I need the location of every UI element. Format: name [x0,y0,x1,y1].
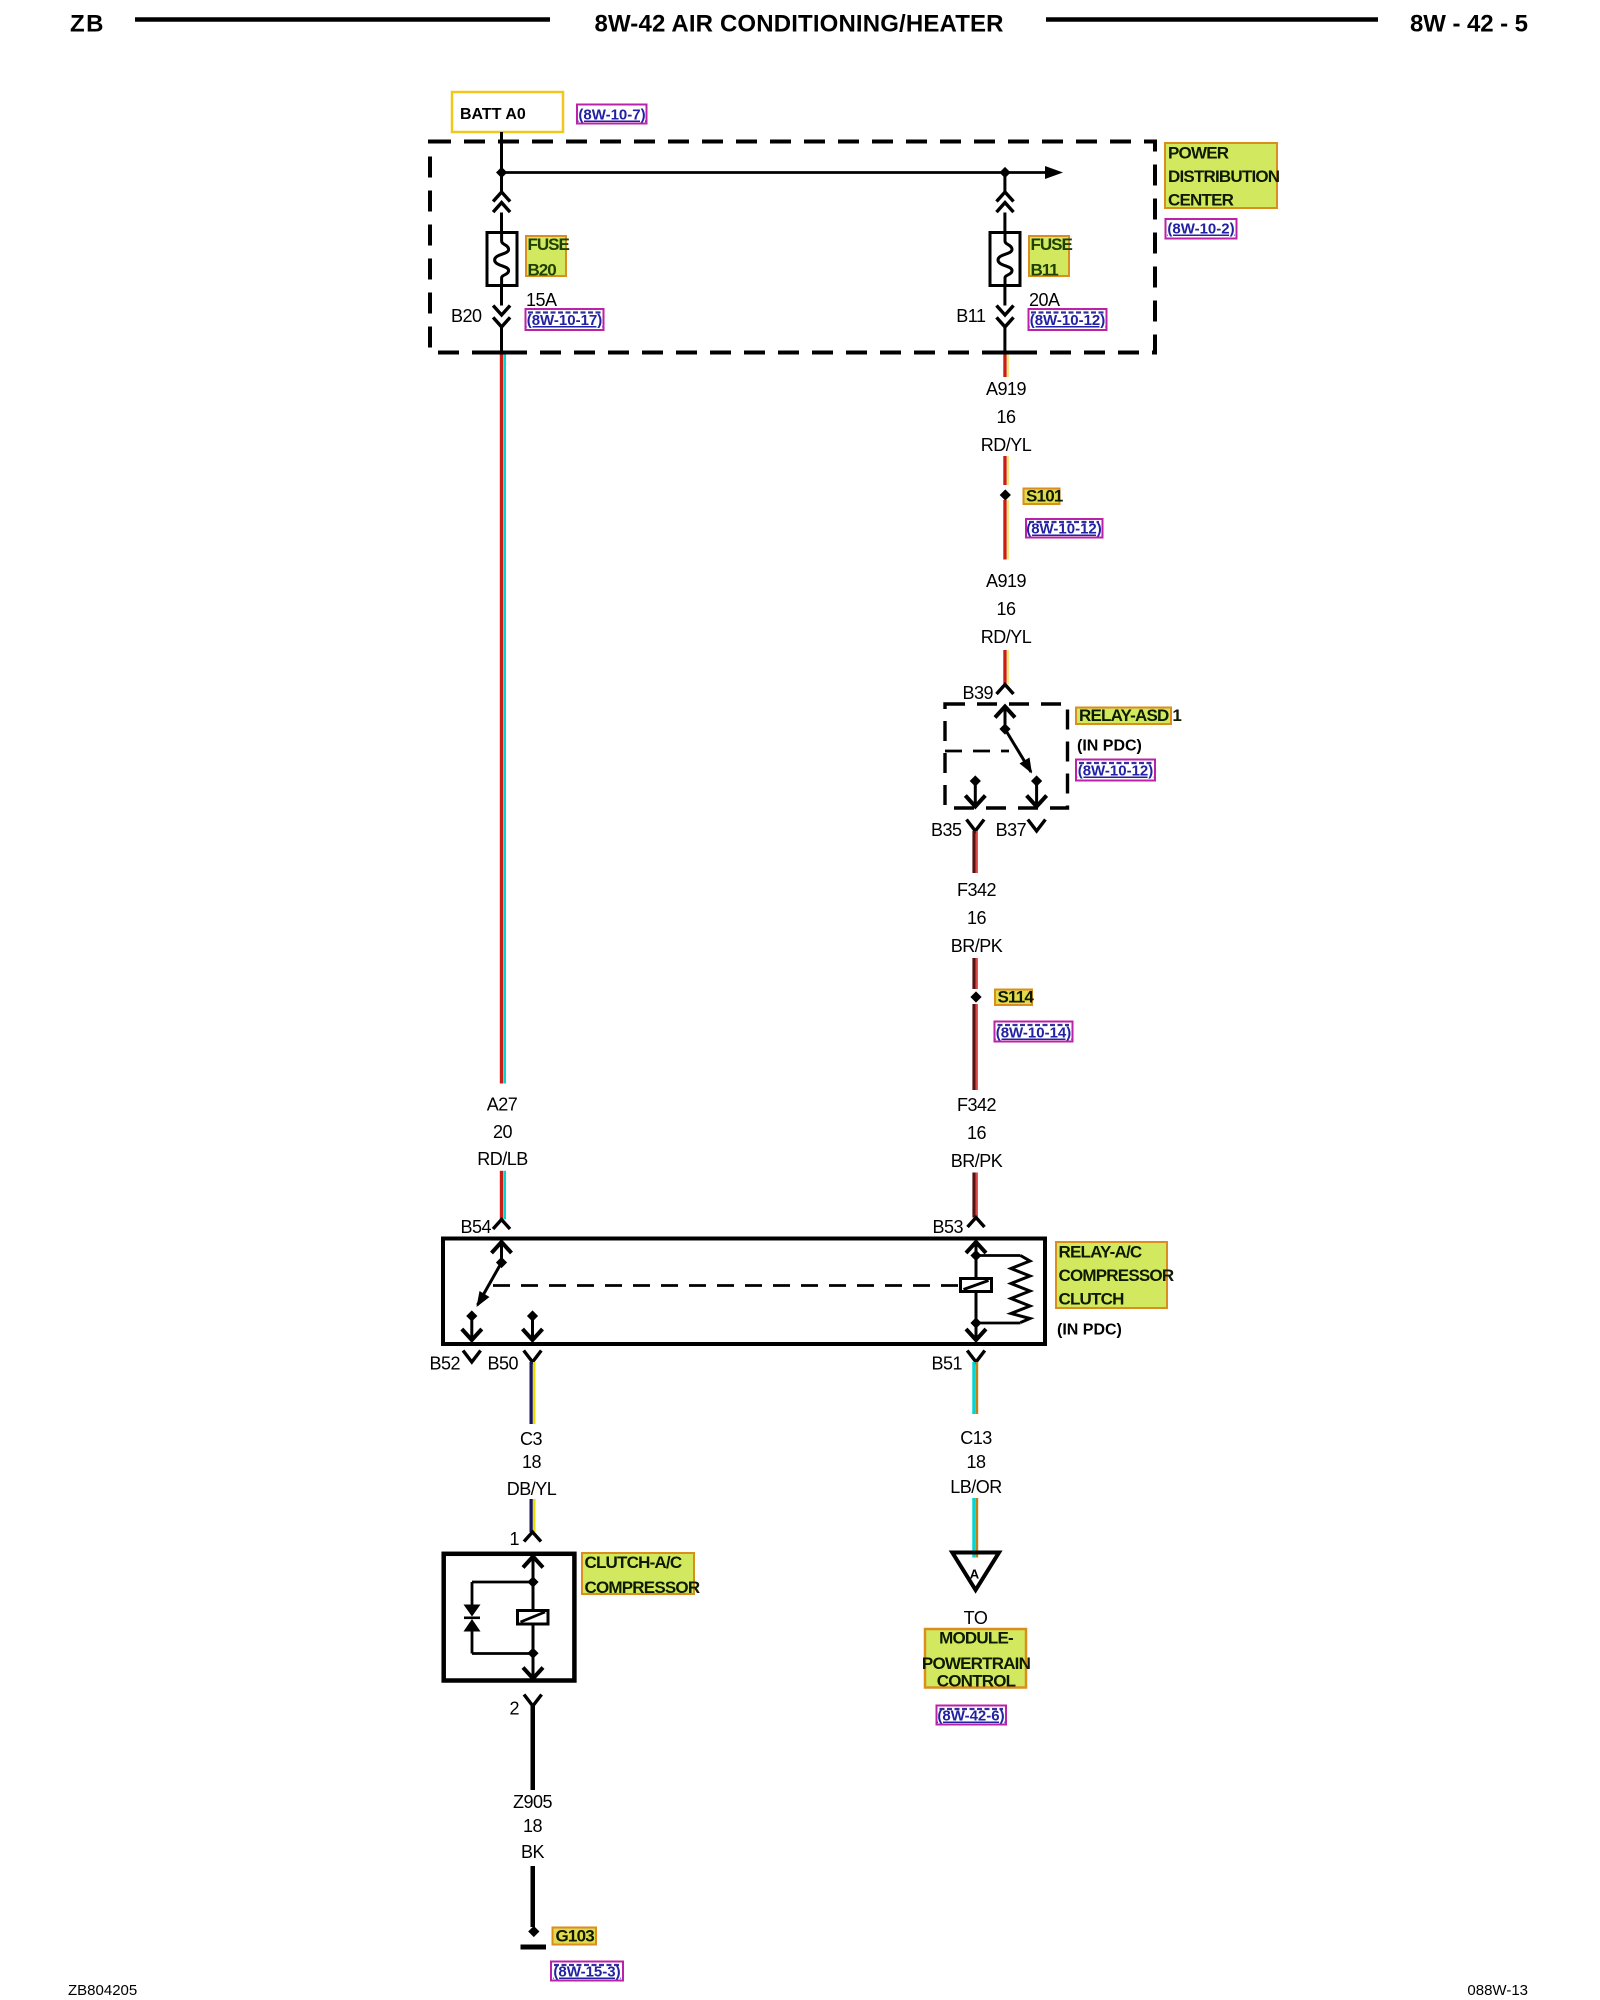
svg-text:BK: BK [521,1842,545,1862]
svg-text:RELAY-ASD 1: RELAY-ASD 1 [1079,706,1181,725]
svg-text:15A: 15A [526,290,557,310]
svg-text:16: 16 [967,1123,987,1143]
svg-text:DISTRIBUTION: DISTRIBUTION [1168,167,1280,186]
svg-text:COMPRESSOR: COMPRESSOR [1059,1266,1174,1285]
svg-text:A919: A919 [986,571,1027,591]
svg-text:16: 16 [996,599,1016,619]
svg-text:RD/LB: RD/LB [477,1149,528,1169]
svg-text:B20: B20 [528,261,557,280]
svg-text:A27: A27 [487,1095,518,1115]
svg-text:CENTER: CENTER [1168,191,1234,210]
svg-text:LB/OR: LB/OR [950,1477,1002,1497]
svg-text:B54: B54 [460,1217,491,1237]
svg-text:CLUTCH-A/C: CLUTCH-A/C [585,1553,682,1572]
svg-text:G103: G103 [556,1927,595,1946]
svg-text:16: 16 [967,908,987,928]
svg-text:COMPRESSOR: COMPRESSOR [585,1578,700,1597]
svg-text:(8W-10-12): (8W-10-12) [1026,521,1102,538]
svg-text:S101: S101 [1026,487,1063,506]
svg-text:B37: B37 [996,820,1027,840]
svg-text:A: A [970,1567,980,1582]
svg-text:16: 16 [996,407,1016,427]
svg-text:B50: B50 [487,1354,518,1374]
svg-text:BR/PK: BR/PK [951,1151,1003,1171]
svg-text:(8W-42-6): (8W-42-6) [937,1708,1004,1725]
svg-text:BR/PK: BR/PK [951,936,1003,956]
svg-text:20A: 20A [1029,290,1060,310]
svg-text:ZB: ZB [70,11,105,38]
svg-text:C3: C3 [520,1429,542,1449]
svg-text:(8W-10-12): (8W-10-12) [1030,312,1106,329]
svg-text:FUSE: FUSE [1031,235,1073,254]
svg-text:B51: B51 [931,1354,962,1374]
svg-text:FUSE: FUSE [528,235,570,254]
svg-text:18: 18 [522,1452,542,1472]
svg-text:MODULE-: MODULE- [939,1629,1013,1648]
svg-text:POWERTRAIN: POWERTRAIN [922,1654,1031,1673]
svg-text:RD/YL: RD/YL [981,627,1032,647]
svg-text:B39: B39 [962,683,993,703]
svg-text:S114: S114 [998,988,1035,1007]
svg-text:RELAY-A/C: RELAY-A/C [1059,1243,1142,1262]
svg-text:(8W-15-3): (8W-15-3) [553,1964,620,1981]
svg-text:B20: B20 [451,306,482,326]
svg-text:RD/YL: RD/YL [981,435,1032,455]
svg-text:B53: B53 [932,1217,963,1237]
svg-text:BATT A0: BATT A0 [460,106,526,123]
svg-text:B35: B35 [931,820,962,840]
svg-text:18: 18 [523,1816,543,1836]
svg-text:DB/YL: DB/YL [507,1479,557,1499]
svg-text:ZB804205: ZB804205 [68,1982,137,1999]
svg-text:CONTROL: CONTROL [937,1672,1016,1691]
svg-text:18: 18 [966,1452,986,1472]
svg-text:B52: B52 [429,1354,460,1374]
svg-text:(8W-10-2): (8W-10-2) [1167,221,1234,238]
svg-text:A919: A919 [986,379,1027,399]
svg-text:(8W-10-7): (8W-10-7) [578,107,645,124]
svg-text:F342: F342 [957,1095,997,1115]
svg-text:(8W-10-14): (8W-10-14) [996,1025,1072,1042]
svg-text:088W-13: 088W-13 [1467,1982,1528,1999]
svg-text:8W-42 AIR CONDITIONING/HEATER: 8W-42 AIR CONDITIONING/HEATER [595,11,1004,38]
svg-text:20: 20 [493,1122,513,1142]
svg-text:(IN PDC): (IN PDC) [1057,1322,1122,1339]
svg-text:C13: C13 [960,1428,992,1448]
svg-text:Z905: Z905 [513,1792,553,1812]
svg-text:(8W-10-17): (8W-10-17) [527,312,603,329]
svg-text:TO: TO [964,1608,988,1628]
svg-text:(IN PDC): (IN PDC) [1077,738,1142,755]
svg-text:POWER: POWER [1168,144,1229,163]
svg-text:1: 1 [509,1529,519,1549]
svg-text:2: 2 [509,1699,519,1719]
svg-text:F342: F342 [957,880,997,900]
svg-text:B11: B11 [1031,261,1059,280]
svg-text:(8W-10-12): (8W-10-12) [1078,763,1154,780]
svg-text:8W - 42 - 5: 8W - 42 - 5 [1410,11,1528,38]
svg-text:CLUTCH: CLUTCH [1059,1290,1125,1309]
svg-text:B11: B11 [956,306,986,326]
